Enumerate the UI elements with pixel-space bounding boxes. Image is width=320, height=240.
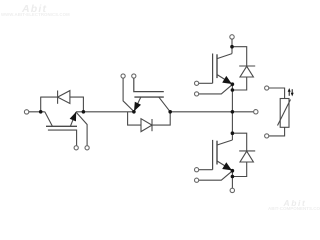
- IGBT Q4 emitter diagonal: [217, 161, 232, 171]
- IGBT Q3 gate electrode: [212, 54, 214, 84]
- junction Q4 emitter node: [231, 169, 235, 173]
- wire T1 to node A: [29, 111, 45, 113]
- junction middle emitter node: [132, 110, 136, 114]
- IGBT Q4 collector diagonal: [217, 140, 232, 145]
- IGBT Q1 collector diagonal: [45, 112, 53, 127]
- wire bottom diode branch: [232, 133, 246, 150]
- terminal circle aux E2 (middle block): [121, 74, 125, 78]
- wire gate G4: [199, 169, 213, 171]
- wire node A up: [40, 97, 42, 113]
- wire Q3 emitter to midpoint: [231, 84, 233, 112]
- terminal circle gate G3: [195, 81, 199, 85]
- terminal circle aux E1: [85, 146, 89, 150]
- IGBT Q1 aux emitter wire: [76, 113, 87, 146]
- wire aux E3: [199, 85, 232, 94]
- terminal circle T1 (left block collector): [24, 110, 28, 114]
- arrowhead Q4 emitter: [222, 162, 232, 170]
- diode D2 cathode bar: [151, 119, 153, 131]
- diode D1 cathode bar: [57, 91, 59, 104]
- junction Q3 emitter node: [231, 82, 235, 86]
- terminal circle collector top: [230, 35, 234, 39]
- wire top diode branch: [232, 47, 247, 66]
- wire emitter bus left-to-middle: [76, 111, 134, 113]
- IGBT Q1 emitter diagonal: [70, 112, 76, 126]
- watermark top-left logo: [22, 4, 47, 15]
- IGBT Q3 emitter diagonal: [217, 75, 232, 85]
- terminal circle thermistor top: [265, 86, 269, 90]
- IGBT Q2 collector diagonal: [159, 97, 170, 112]
- arrowhead Q3 emitter: [222, 76, 232, 84]
- terminal circle gate G2: [132, 74, 136, 78]
- junction midpoint: [231, 110, 235, 114]
- diode D3 triangle: [240, 66, 253, 77]
- junction top collector: [230, 45, 234, 49]
- thermistor down arrow: [291, 89, 293, 93]
- IGBT Q3 body bar: [216, 54, 218, 78]
- junction bottom diode return: [231, 175, 235, 179]
- thermistor RT1 body: [280, 99, 289, 128]
- junction left diode rail: [82, 110, 86, 114]
- IGBT Q1 body bar: [46, 125, 77, 127]
- watermark bottom-right small text: [268, 207, 320, 212]
- wire top diode branch bottom: [232, 77, 246, 90]
- IGBT Q1 gate electrode: [48, 130, 77, 146]
- wire aux E4: [199, 171, 232, 180]
- terminal circle emitter bottom: [230, 188, 234, 192]
- wire thermistor top: [269, 88, 285, 99]
- wire midpoint to Q4 collector: [231, 112, 233, 140]
- junction top diode return: [231, 88, 235, 92]
- arrowhead Q2 emitter: [134, 102, 141, 112]
- wire aux E2 down: [123, 78, 134, 111]
- wire gate G2 down: [134, 78, 164, 91]
- watermark top-left small text: [1, 13, 70, 18]
- IGBT Q2 body bar: [134, 96, 163, 98]
- wire Q4 emitter down: [231, 171, 233, 189]
- wire thermistor bottom: [269, 127, 285, 136]
- diode D2 triangle: [141, 119, 152, 132]
- terminal circle aux E4: [195, 178, 199, 182]
- terminal circle gate G4: [195, 168, 199, 172]
- junction middle collector node: [168, 110, 172, 114]
- wire midpoint bus to phase: [170, 111, 253, 113]
- terminal circle phase out: [254, 110, 258, 114]
- junction node A: [39, 110, 43, 114]
- IGBT Q2 emitter diagonal: [134, 97, 141, 111]
- IGBT Q4 body bar: [216, 141, 218, 165]
- wire gate G3: [199, 82, 213, 84]
- wire diode rail top: [41, 97, 84, 112]
- IGBT Q4 gate electrode: [212, 140, 214, 170]
- terminal circle thermistor bottom: [265, 134, 269, 138]
- diode D4 triangle: [240, 151, 253, 162]
- terminal circle aux E3: [195, 92, 199, 96]
- wire middle diode branch: [128, 112, 171, 125]
- terminal circle gate G1: [74, 146, 78, 150]
- IGBT Q3 collector diagonal: [217, 54, 232, 59]
- arrowhead Q1 emitter: [70, 112, 77, 122]
- wire top collector down: [231, 39, 233, 54]
- diode D1 triangle: [58, 91, 70, 104]
- diode D3 cathode bar: [239, 65, 255, 67]
- diode D4 cathode bar: [239, 150, 255, 152]
- thermistor RT1 diagonal: [278, 100, 291, 126]
- watermark bottom-right logo: [284, 199, 307, 208]
- thermistor up arrow: [288, 91, 290, 96]
- junction Q4 collector: [231, 131, 235, 135]
- wire bottom diode branch bottom: [232, 162, 246, 176]
